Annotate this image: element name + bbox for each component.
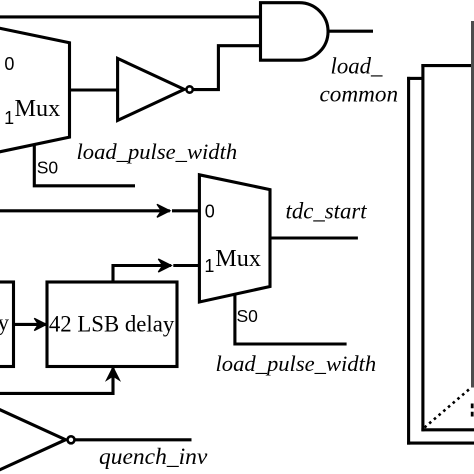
svg-text:0: 0 <box>4 54 14 74</box>
svg-text:y: y <box>0 310 10 335</box>
svg-text:tdc_start: tdc_start <box>286 198 368 223</box>
svg-text:1: 1 <box>204 256 214 276</box>
svg-text:42 LSB delay: 42 LSB delay <box>49 311 175 336</box>
svg-text:load_pulse_width: load_pulse_width <box>77 139 238 164</box>
svg-text:S0: S0 <box>37 157 59 177</box>
svg-text:common: common <box>320 82 399 108</box>
svg-text:S0: S0 <box>237 306 259 326</box>
svg-text:1: 1 <box>4 108 14 128</box>
svg-text:0: 0 <box>205 202 215 222</box>
svg-text:Mux: Mux <box>215 245 261 272</box>
svg-text:load_pulse_width: load_pulse_width <box>216 351 377 376</box>
svg-text:load_: load_ <box>331 54 384 79</box>
svg-text:Mux: Mux <box>15 95 61 122</box>
svg-text:quench_inv: quench_inv <box>99 444 208 470</box>
